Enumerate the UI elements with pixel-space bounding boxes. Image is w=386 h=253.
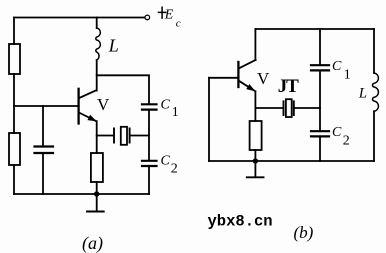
svg-text:L: L <box>358 86 367 102</box>
svg-text:JT: JT <box>278 76 299 97</box>
svg-text:1: 1 <box>172 105 179 120</box>
svg-text:(b): (b) <box>294 223 314 242</box>
svg-text:C: C <box>161 97 171 112</box>
svg-text:C: C <box>332 59 342 74</box>
svg-text:C: C <box>332 125 342 140</box>
svg-text:c: c <box>176 18 181 30</box>
svg-text:2: 2 <box>343 134 350 149</box>
svg-text:E: E <box>164 8 174 23</box>
svg-text:V: V <box>97 95 110 114</box>
svg-text:ybx8.cn: ybx8.cn <box>208 212 273 230</box>
svg-text:(a): (a) <box>82 233 103 253</box>
svg-text:L: L <box>108 36 119 56</box>
svg-text:1: 1 <box>344 67 351 82</box>
svg-text:C: C <box>161 154 171 169</box>
svg-text:2: 2 <box>171 162 178 177</box>
svg-text:V: V <box>257 69 270 88</box>
